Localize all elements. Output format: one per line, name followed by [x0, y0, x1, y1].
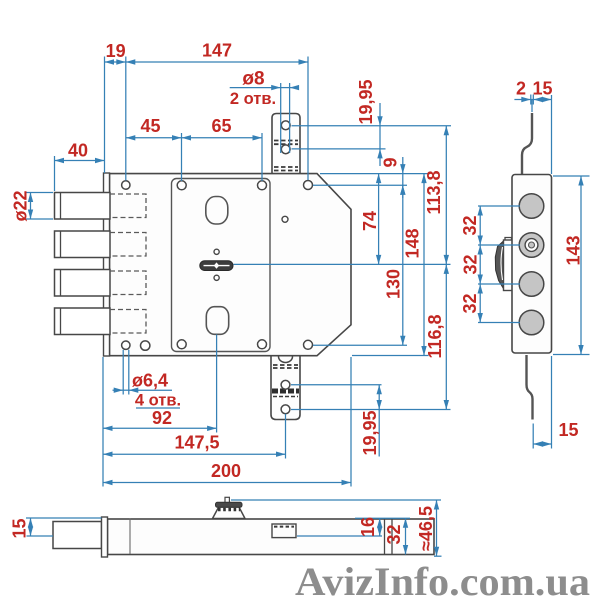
deadbolt 4	[55, 308, 147, 335]
bottom view bolt	[53, 517, 108, 557]
svg-text:147,5: 147,5	[174, 433, 219, 453]
dim o6,4	[113, 350, 181, 408]
svg-text:2 отв.: 2 отв.	[230, 90, 276, 108]
side view box	[512, 175, 552, 354]
side bolt circle 1	[519, 194, 544, 219]
plate hole bottom-right	[258, 340, 267, 349]
dim 19,95 top	[292, 103, 452, 166]
svg-text:116,8: 116,8	[425, 314, 445, 358]
svg-text:40: 40	[68, 141, 88, 161]
dim 32 x3 side view	[478, 206, 520, 323]
svg-text:ø6,4: ø6,4	[132, 371, 168, 391]
side faceplate top strip	[522, 113, 532, 175]
dim 148	[423, 174, 425, 356]
body screw hole top-left	[122, 181, 130, 189]
dim 74	[378, 174, 380, 265]
svg-text:ø22: ø22	[11, 190, 31, 221]
svg-text:45: 45	[140, 116, 160, 136]
dim o8 leader/line	[230, 83, 298, 153]
svg-text:32: 32	[460, 293, 480, 313]
faceplate strip	[104, 173, 110, 356]
plate hole bottom-left	[177, 340, 186, 349]
bottom view body	[108, 519, 435, 555]
dim 147 line	[126, 61, 308, 63]
svg-text:16: 16	[358, 517, 378, 537]
svg-text:148: 148	[403, 228, 423, 258]
dim 147 extension line right	[307, 57, 309, 181]
svg-text:15: 15	[558, 420, 578, 440]
body screw hole bottom-left A	[122, 341, 130, 349]
dim 40	[55, 156, 105, 191]
dim 130	[402, 185, 404, 345]
side bolt circle 4	[519, 310, 544, 335]
dim 92 / 147,5 / 200	[103, 335, 351, 487]
deadbolt 3	[55, 270, 147, 297]
svg-text:19,95: 19,95	[360, 410, 380, 455]
right side extension lines	[320, 173, 430, 175]
svg-text:32: 32	[460, 215, 480, 235]
bottom mounting tab	[271, 354, 300, 420]
small hole above slot	[214, 249, 219, 254]
dim 15 bottom right	[533, 356, 551, 449]
dim 2 / 15 top right	[514, 95, 551, 175]
dim 116,8	[445, 264, 447, 409]
side faceplate bottom strip	[527, 355, 533, 420]
handle slot	[200, 261, 233, 271]
plate hole top-left	[177, 181, 186, 190]
bottom view strike box	[272, 524, 296, 538]
small pin hole	[282, 216, 288, 222]
side cylinder circle	[519, 233, 544, 258]
bottom oval keyhole	[206, 307, 228, 335]
dim 19 line	[105, 61, 126, 63]
bottom view latch cam	[213, 497, 246, 518]
svg-text:113,8: 113,8	[424, 170, 444, 214]
svg-text:147: 147	[202, 41, 232, 61]
deadbolt 2	[55, 231, 147, 258]
dim 143	[553, 176, 590, 355]
small hole below slot	[214, 275, 219, 280]
svg-text:92: 92	[152, 408, 172, 428]
svg-text:19,95: 19,95	[356, 79, 376, 124]
dim 15 bottom left	[26, 518, 102, 536]
dim o22	[26, 193, 54, 220]
body screw hole bottom-right	[304, 340, 313, 349]
side latch lever	[495, 238, 515, 291]
svg-text:9: 9	[381, 157, 401, 167]
svg-text:143: 143	[564, 235, 584, 265]
svg-text:15: 15	[532, 79, 552, 99]
plate hole top-right	[258, 181, 267, 190]
svg-text:65: 65	[211, 116, 231, 136]
top mounting tab	[272, 114, 300, 177]
svg-text:130: 130	[384, 269, 404, 299]
svg-text:ø8: ø8	[242, 69, 264, 90]
svg-text:74: 74	[360, 211, 380, 231]
svg-text:19: 19	[106, 41, 126, 61]
dim 113,8	[445, 126, 447, 265]
svg-text:200: 200	[211, 461, 241, 481]
side bolt circle 3	[519, 272, 544, 297]
dim 16 / 32 / 46,5 bottom view	[231, 500, 442, 556]
svg-text:32: 32	[384, 524, 404, 544]
lock body	[110, 174, 352, 356]
svg-text:2: 2	[516, 79, 526, 99]
svg-text:≈46,5: ≈46,5	[416, 506, 436, 551]
dim 19 extension lines	[104, 57, 106, 174]
inner cover plate	[172, 179, 271, 352]
dim 9	[402, 157, 404, 198]
dim 19,95 bottom	[291, 385, 451, 457]
svg-text:4 отв.: 4 отв.	[135, 392, 181, 410]
deadbolt 1	[55, 193, 147, 220]
svg-text:AvizInfo.com.ua: AvizInfo.com.ua	[295, 559, 590, 600]
cylinder hole top oval	[206, 197, 228, 225]
svg-text:32: 32	[461, 254, 481, 274]
svg-text:15: 15	[10, 518, 30, 538]
body screw hole top-right	[304, 181, 313, 190]
dim 45 / 65	[126, 133, 262, 181]
body screw hole bottom-left B	[141, 341, 150, 350]
